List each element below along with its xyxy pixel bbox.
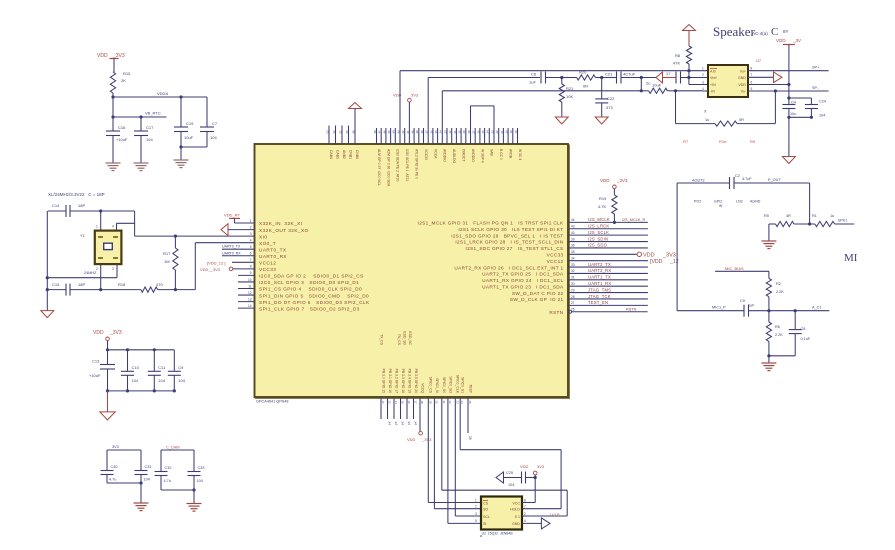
svg-text:I2S1_MCLK GPIO 31 FLASH PG Q: I2S1_MCLK GPIO 31 FLASH PG QN 1 IS TRST … xyxy=(418,221,564,226)
svg-text:S 1: S 1 xyxy=(515,515,520,519)
svg-text:7: 7 xyxy=(751,73,753,77)
svg-text:GPI2: GPI2 xyxy=(714,200,722,204)
IC top pin group A stubs xyxy=(329,126,349,145)
wire net VDDA horizontal xyxy=(113,91,207,97)
svg-text:VDD: VDD xyxy=(393,93,402,98)
svg-text:5: 5 xyxy=(250,245,252,249)
wire feedback loop xyxy=(674,89,776,123)
net label I2S_MCLK_R xyxy=(622,218,645,222)
svg-text:4.7u: 4.7u xyxy=(109,478,116,482)
svg-text:R5: R5 xyxy=(764,214,769,218)
wire flash SO xyxy=(434,397,481,509)
wire crystal top to right xyxy=(101,210,135,212)
svg-text:C30: C30 xyxy=(111,465,118,469)
svg-text:P_OUT: P_OUT xyxy=(768,178,781,182)
port arrow (flash gnd) xyxy=(541,518,550,529)
svg-text:4C7uF: 4C7uF xyxy=(623,72,636,77)
svg-text:C_CHM: C_CHM xyxy=(166,446,180,450)
svg-text:C4: C4 xyxy=(791,100,796,104)
svg-text:AGND: AGND xyxy=(750,200,761,204)
svg-text:53: 53 xyxy=(325,130,329,134)
wire node A to IC pin XI xyxy=(175,235,254,237)
svg-text:Y1: Y1 xyxy=(80,233,86,238)
svg-text:SW_D_CLK GP IO 21: SW_D_CLK GP IO 21 xyxy=(510,297,564,302)
svg-text:15: 15 xyxy=(401,401,405,405)
svg-text:28: 28 xyxy=(571,295,575,299)
svg-text:C13: C13 xyxy=(92,359,100,364)
svg-text:0R: 0R xyxy=(739,118,744,122)
port arrow (flash cap gnd) xyxy=(496,472,522,483)
svg-text:R21: R21 xyxy=(566,86,574,91)
svg-text:R17: R17 xyxy=(163,251,171,256)
svg-text:AC-4(a): AC-4(a) xyxy=(752,31,768,36)
IC top pin rotated labels A xyxy=(329,150,359,159)
svg-text:x4: x4 xyxy=(394,422,398,426)
svg-text:x4: x4 xyxy=(414,422,418,426)
ground (leg2) xyxy=(595,117,608,124)
wire cap pair bottom xyxy=(179,145,207,148)
svg-text:SI: SI xyxy=(483,522,486,526)
svg-text:ESD_SC: ESD_SC xyxy=(408,331,412,345)
cap pair1 top bus xyxy=(107,450,141,471)
svg-text:_3V: _3V xyxy=(792,38,801,43)
svg-text:VCC12: VCC12 xyxy=(259,261,276,266)
capacitor C22 (shunt leg2) xyxy=(595,78,615,118)
wire from C14 to crystal top xyxy=(70,210,101,212)
svg-text:10uF: 10uF xyxy=(184,135,194,140)
svg-text:SPIC0_S1: SPIC0_S1 xyxy=(461,377,465,393)
capacitor C23 (series row2) xyxy=(652,71,708,88)
svg-text:18: 18 xyxy=(420,401,424,405)
svg-text:PB 3.3 GPIO 18: PB 3.3 GPIO 18 xyxy=(401,369,405,393)
svg-text:3: 3 xyxy=(475,512,477,516)
svg-text:TN_CS: TN_CS xyxy=(397,334,401,346)
capacitor C6 (series row2) xyxy=(529,72,546,85)
svg-text:29: 29 xyxy=(571,288,575,292)
svg-text:SP-: SP- xyxy=(812,86,819,90)
svg-text:LN3: LN3 xyxy=(736,200,743,204)
svg-text:19: 19 xyxy=(428,401,432,405)
power flag VDD_3V3 (top-left) xyxy=(97,53,125,72)
capacitor C20 xyxy=(200,97,218,147)
wire R3-R4 xyxy=(794,222,815,225)
op-amp U7 left pin names xyxy=(710,69,717,94)
ground (cap pair) xyxy=(174,160,189,168)
svg-text:14: 14 xyxy=(248,304,252,308)
svg-text:31: 31 xyxy=(571,276,575,280)
svg-text:SPI1_DIN GPIO 5 SDIO0_CMD: SPI1_DIN GPIO 5 SDIO0_CMD SPI2_D0 xyxy=(259,293,369,298)
flash U2 ref label xyxy=(480,532,513,537)
svg-text:10K: 10K xyxy=(566,94,573,99)
node mic junction xyxy=(767,309,770,312)
resistor R4 xyxy=(812,214,835,227)
svg-text:R6: R6 xyxy=(775,325,780,329)
svg-text:I2S_LRCK: I2S_LRCK xyxy=(588,224,609,229)
svg-text:AOUT2: AOUT2 xyxy=(692,179,705,183)
resistor R2 (bias) xyxy=(766,278,784,310)
svg-text:C33: C33 xyxy=(198,466,205,470)
svg-text:104: 104 xyxy=(132,378,139,383)
title Speaker xyxy=(713,24,789,39)
svg-text:+10uF: +10uF xyxy=(116,137,128,142)
svg-text:5: 5 xyxy=(751,87,753,91)
wire down to second net xyxy=(112,97,114,117)
node junction xyxy=(111,115,114,118)
wire mic vertical trunk xyxy=(676,183,678,311)
capacitor C10 xyxy=(121,350,140,391)
svg-text:3V3: 3V3 xyxy=(537,464,545,469)
svg-text:GND: GND xyxy=(512,522,520,526)
svg-text:_3V3: _3V3 xyxy=(662,252,676,258)
svg-text:24: 24 xyxy=(460,401,464,405)
svg-text:SAB: SAB xyxy=(490,149,494,157)
svg-text:1+3 P: 1+3 P xyxy=(550,513,560,517)
svg-text:RSTN: RSTN xyxy=(626,308,637,312)
ground (amp rail) xyxy=(782,157,795,164)
svg-text:C11: C11 xyxy=(158,365,166,370)
svg-text:GPCA4641 QFN48: GPCA4641 QFN48 xyxy=(256,400,289,404)
capacitor C16 xyxy=(106,117,128,163)
svg-text:R8: R8 xyxy=(675,53,681,58)
svg-text:UART1_TX: UART1_TX xyxy=(588,275,611,280)
power arrow (amp pull-up) xyxy=(683,25,696,47)
svg-text:MIC1_P: MIC1_P xyxy=(712,306,726,310)
svg-text:VCCA: VCCA xyxy=(433,149,437,159)
wire mic line xyxy=(677,310,744,312)
svg-text:I2S_SDO: I2S_SDO xyxy=(588,243,608,248)
wire SP+ (amp out row1) xyxy=(748,66,829,71)
svg-text:VCC33: VCC33 xyxy=(424,149,428,160)
ground (pair2) xyxy=(187,504,202,512)
power ring VDD_3V3 (bottom pin) xyxy=(407,397,432,442)
svg-text:AVDDIO: AVDDIO xyxy=(443,149,447,162)
capacitor C25 (flash decouple) xyxy=(506,471,535,487)
net label pair1 xyxy=(112,445,119,449)
svg-text:28: 28 xyxy=(468,436,472,440)
wire UART0_TX (left pin 5) xyxy=(222,245,255,250)
svg-text:VDD: VDD xyxy=(776,38,786,43)
svg-text:A_C1: A_C1 xyxy=(812,306,822,310)
power ring VDD_3V3 (right pin 6) xyxy=(637,252,676,258)
svg-text:47K: 47K xyxy=(673,61,680,66)
wire net VB_RTC horizontal xyxy=(113,111,167,118)
svg-text:B CC 0: B CC 0 xyxy=(499,149,503,160)
wire bias vertical xyxy=(687,69,690,84)
svg-text:+IN: +IN xyxy=(710,83,716,87)
svg-text:R18: R18 xyxy=(118,282,126,287)
wire bank to ground xyxy=(107,391,109,412)
svg-text:104: 104 xyxy=(158,378,165,383)
crystal pad marks xyxy=(96,225,118,272)
wire net VREF (top pin to speaker row2) xyxy=(428,78,540,145)
svg-text:[VDD: [VDD xyxy=(650,259,663,265)
svg-text:UART2_RX: UART2_RX xyxy=(588,268,611,273)
crystal Y1 body xyxy=(80,231,121,265)
svg-text:U7: U7 xyxy=(756,58,762,63)
svg-text:JTAG_TMS: JTAG_TMS xyxy=(588,287,611,292)
svg-text:51: 51 xyxy=(338,130,342,134)
power label VDD_12 (right pin 7) xyxy=(650,259,679,265)
flash U2 left pin numbers xyxy=(475,498,477,523)
power ring (cap bank) xyxy=(106,337,110,350)
svg-text:x4: x4 xyxy=(388,422,392,426)
svg-text:104: 104 xyxy=(210,135,217,140)
wire pair2 to ground xyxy=(193,490,195,503)
svg-text:C7: C7 xyxy=(212,121,218,126)
svg-text:C2: C2 xyxy=(735,174,740,178)
svg-text:AUDLDO: AUDLDO xyxy=(452,149,456,163)
power flag VDD_RTC (left pin 1) xyxy=(224,213,255,224)
resistor R22 (series row3) xyxy=(641,81,675,94)
svg-text:C32: C32 xyxy=(165,466,172,470)
svg-text:Vref: Vref xyxy=(710,76,716,80)
svg-text:C31: C31 xyxy=(145,465,152,469)
wire flash CS xyxy=(428,397,481,503)
svg-text:C6: C6 xyxy=(531,72,537,77)
svg-text:40: 40 xyxy=(411,130,415,134)
IC bottom extra rotated labels xyxy=(380,331,413,345)
svg-text:PB 3.1 GPIO 16: PB 3.1 GPIO 16 xyxy=(388,369,392,393)
svg-text:SPIC0_CS: SPIC0_CS xyxy=(429,377,433,394)
svg-text:I2S1_SDO GPIO 29 BPVC_SEL 1: I2S1_SDO GPIO 29 BPVC_SEL 1 I IS TEST xyxy=(451,233,563,238)
svg-text:UART0_TX: UART0_TX xyxy=(259,247,287,252)
svg-text:2.2K: 2.2K xyxy=(776,290,784,294)
flash U2 left pin names xyxy=(483,501,490,527)
svg-text:C: C xyxy=(771,26,778,38)
svg-text:_3V3: _3V3 xyxy=(616,178,628,183)
capacitor C11 xyxy=(148,350,166,391)
svg-text:x4: x4 xyxy=(401,422,405,426)
wire jog to IC pin XO xyxy=(195,242,254,244)
svg-text:25: 25 xyxy=(481,130,485,134)
svg-text:UART0_TX: UART0_TX xyxy=(222,245,241,249)
power flag VDD_3V3 (right pull-up) xyxy=(600,178,628,189)
capacitor C21 (series row2) xyxy=(602,72,656,84)
wire crystal top lead xyxy=(100,211,102,231)
svg-text:MI: MI xyxy=(844,252,858,264)
svg-text:1uF: 1uF xyxy=(529,80,536,85)
svg-text:UART1_TX GPIO 23 I DC1_SDA: UART1_TX GPIO 23 I DC1_SDA xyxy=(482,284,564,289)
label MI xyxy=(844,252,858,264)
IC top pin group A numbers xyxy=(325,130,355,134)
svg-text:SPIC0_CLK: SPIC0_CLK xyxy=(456,375,460,394)
svg-text:4: 4 xyxy=(112,225,114,229)
svg-text:HOLD: HOLD xyxy=(510,508,520,512)
IC right pin wires and net labels xyxy=(568,217,648,305)
svg-text:6: 6 xyxy=(250,252,252,256)
svg-text:R20: R20 xyxy=(579,70,587,75)
cap pair2 top bus xyxy=(161,450,194,472)
ground (leg1) xyxy=(555,117,568,124)
svg-text:UART0_RX: UART0_RX xyxy=(222,251,241,255)
svg-text:VDD: VDD xyxy=(600,178,610,183)
svg-text:24MHZ: 24MHZ xyxy=(84,271,97,275)
svg-text:8Y: 8Y xyxy=(783,29,789,34)
svg-text:PB 3.2 GPIO 17: PB 3.2 GPIO 17 xyxy=(394,369,398,393)
svg-text:38: 38 xyxy=(420,130,424,134)
svg-text:8: 8 xyxy=(250,265,252,269)
flash U2 body xyxy=(481,497,522,530)
svg-text:RSTN: RSTN xyxy=(549,310,563,315)
svg-text:VDD: VDD xyxy=(520,464,529,469)
svg-text:1M: 1M xyxy=(164,259,170,264)
svg-text:104: 104 xyxy=(508,483,514,487)
svg-text:1: 1 xyxy=(96,225,98,229)
svg-text:SPI1_CLK GPIO 7 SDIO0_D2 SPI: SPI1_CLK GPIO 7 SDIO0_D2 SPI2_D3 xyxy=(259,306,360,311)
wire to ground xyxy=(180,147,182,160)
svg-text:C16: C16 xyxy=(118,125,126,130)
wire corner down xyxy=(134,211,136,236)
svg-text:SO: SO xyxy=(483,508,488,512)
svg-text:13: 13 xyxy=(388,401,392,405)
svg-text:34: 34 xyxy=(571,256,575,260)
wire mic top to corner xyxy=(734,178,810,183)
wire flash SI loop xyxy=(442,397,567,516)
svg-text:21: 21 xyxy=(442,401,446,405)
svg-text:4: 4 xyxy=(250,238,252,242)
svg-text:40: 40 xyxy=(571,231,575,235)
svg-text:1uF: 1uF xyxy=(748,304,755,308)
net label pair2 xyxy=(166,446,180,450)
svg-text:2: 2 xyxy=(250,225,252,229)
svg-text:8: 8 xyxy=(524,498,526,502)
node row2 junction R20 xyxy=(546,76,564,79)
resistor R6 (mic shunt) xyxy=(766,311,783,356)
svg-text:42: 42 xyxy=(401,130,405,134)
svg-text:30: 30 xyxy=(571,282,575,286)
svg-text:33: 33 xyxy=(571,263,575,267)
svg-text:CAB3: CAB3 xyxy=(336,150,340,159)
svg-text:18: 18 xyxy=(514,130,518,134)
text mic pin row xyxy=(694,200,761,209)
svg-text:AVDDIO: AVDDIO xyxy=(471,149,475,162)
capacitor C32 xyxy=(155,466,172,490)
svg-text:SPIC0_S0: SPIC0_S0 xyxy=(442,377,446,393)
svg-text:39: 39 xyxy=(571,237,575,241)
op-amp U7 right pin numbers xyxy=(751,67,753,91)
svg-text:VDDA: VDDA xyxy=(157,91,168,96)
resistor R18 (series, horizontal) xyxy=(141,282,164,292)
svg-text:473: 473 xyxy=(606,105,613,110)
svg-text:4: 4 xyxy=(702,87,704,91)
resistor R17 (feedback, vertical) xyxy=(163,236,178,290)
capacitor C9 (series mic) xyxy=(740,299,755,317)
svg-text:Vo-: Vo- xyxy=(741,90,747,94)
svg-text:R2: R2 xyxy=(776,282,781,286)
resistor R3 xyxy=(764,214,794,227)
svg-text:12: 12 xyxy=(248,291,252,295)
svg-text:104: 104 xyxy=(819,114,825,118)
svg-text:SPK1: SPK1 xyxy=(838,219,847,223)
cap bank bottom bus xyxy=(106,389,176,392)
svg-text:26: 26 xyxy=(476,130,480,134)
svg-text:10u: 10u xyxy=(790,112,796,116)
svg-text:C21: C21 xyxy=(605,72,613,77)
IC left internal pin names xyxy=(259,221,370,311)
flash right stub xyxy=(522,515,530,517)
wire R18 to node B xyxy=(158,289,176,291)
port arrow (row2) xyxy=(656,72,663,83)
svg-text:VCCQ: VCCQ xyxy=(420,383,424,393)
svg-text:14: 14 xyxy=(394,401,398,405)
capacitor C12 (series mic top) xyxy=(730,174,753,189)
port arrow (left pin 2) xyxy=(221,224,255,236)
svg-text:DMOCT: DMOCT xyxy=(462,149,466,161)
svg-text:I2S_SCLK: I2S_SCLK xyxy=(588,230,609,235)
wire R4 out xyxy=(835,219,855,225)
svg-text:20: 20 xyxy=(505,130,509,134)
wire amp +IN pin xyxy=(689,84,708,86)
IC U1 part number xyxy=(256,400,289,404)
svg-text:43: 43 xyxy=(571,225,575,229)
ground (R3) xyxy=(761,241,776,249)
svg-text:CAB4: CAB4 xyxy=(329,150,333,159)
svg-text:XO0_T: XO0_T xyxy=(259,241,276,246)
wire amp VDD pin to rail xyxy=(748,83,791,86)
svg-text:Vo+: Vo+ xyxy=(740,69,746,73)
svg-text:50: 50 xyxy=(345,130,349,134)
svg-text:CS: CS xyxy=(483,501,489,505)
svg-text:7: 7 xyxy=(524,505,526,509)
svg-text:R7: R7 xyxy=(683,139,689,144)
svg-text:U2 25Q32 JENB4B: U2 25Q32 JENB4B xyxy=(482,532,514,536)
node rail cap junction xyxy=(787,96,790,99)
svg-text:R9: R9 xyxy=(750,139,756,144)
capacitor C33 xyxy=(188,466,205,490)
svg-text:ESD_SD: ESD_SD xyxy=(403,331,407,345)
wire to mic ground xyxy=(768,356,770,363)
wire jog up xyxy=(194,243,196,290)
svg-text:SPI1_DO DT GPIO 6 SDIO0_D3 S: SPI1_DO DT GPIO 6 SDIO0_D3 SPI2_CLK xyxy=(259,300,370,305)
svg-text:4.7K: 4.7K xyxy=(598,204,607,209)
flash U2 right pin numbers xyxy=(524,498,526,523)
svg-text:VDD: VDD xyxy=(93,330,104,336)
svg-text:32: 32 xyxy=(448,130,452,134)
svg-text:27: 27 xyxy=(571,301,575,305)
op-amp U7 body xyxy=(708,58,762,97)
svg-text:I2C0_SDA GP IO 2 SDIO0_D1 S: I2C0_SDA GP IO 2 SDIO0_D1 SPI2_CS xyxy=(259,274,364,279)
svg-text:104: 104 xyxy=(144,478,150,482)
wire top jog xyxy=(471,106,495,144)
svg-text:22: 22 xyxy=(448,401,452,405)
svg-text:21: 21 xyxy=(500,130,504,134)
svg-text:47: 47 xyxy=(378,130,382,134)
svg-text:23: 23 xyxy=(455,401,459,405)
svg-text:I2S_SDIN: I2S_SDIN xyxy=(588,236,608,241)
note crystal spec xyxy=(48,192,105,197)
red ref labels xyxy=(683,139,756,144)
svg-text:+10uF: +10uF xyxy=(89,373,101,378)
svg-text:12: 12 xyxy=(381,401,385,405)
svg-text:25: 25 xyxy=(468,401,472,405)
wire flash GND xyxy=(522,522,541,524)
svg-text:SPIC0_SI: SPIC0_SI xyxy=(435,378,439,393)
power ring VDD_3V3 (flash) xyxy=(520,464,545,479)
wire mic corner down xyxy=(809,183,811,224)
wire crystal case to rail xyxy=(47,264,117,278)
svg-text:5: 5 xyxy=(475,519,477,523)
svg-text:44: 44 xyxy=(392,130,396,134)
net label flash xyxy=(550,513,560,517)
wire rail cap top bus xyxy=(789,98,812,105)
op-amp U7 left pin numbers xyxy=(702,67,704,91)
svg-text:3: 3 xyxy=(250,232,252,236)
svg-text:-IN: -IN xyxy=(710,90,715,94)
svg-text:33: 33 xyxy=(443,130,447,134)
svg-text:XL/24MHz/3.3V22 C = 18P: XL/24MHz/3.3V22 C = 18P xyxy=(48,192,105,197)
svg-text:3V3: 3V3 xyxy=(112,445,119,449)
svg-text:1u: 1u xyxy=(830,214,834,218)
